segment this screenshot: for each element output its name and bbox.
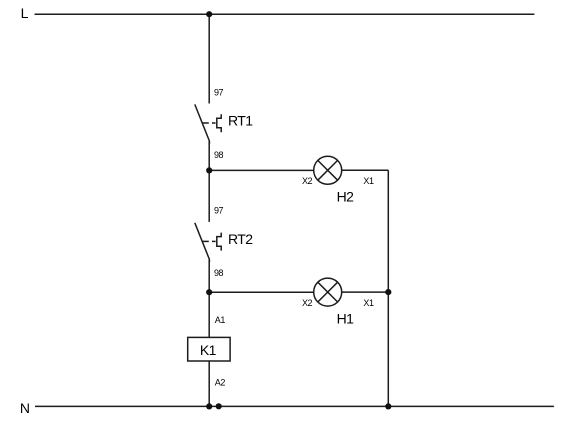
wire RT2 to K1 <box>208 259 210 337</box>
junction right vertical/N <box>385 403 391 409</box>
junction H1/right vertical <box>385 289 391 295</box>
svg-text:A2: A2 <box>215 377 226 387</box>
wire H2 branch left <box>209 169 314 171</box>
svg-text:X1: X1 <box>363 176 374 186</box>
junction N extra dot <box>216 403 222 409</box>
thermal contact RT2 blade <box>195 223 210 263</box>
svg-text:98: 98 <box>214 150 224 160</box>
svg-text:97: 97 <box>214 206 224 216</box>
wire main vertical from L to RT1 <box>208 14 210 103</box>
lamp H1 circle <box>314 278 342 306</box>
svg-text:A1: A1 <box>215 315 226 325</box>
junction K1/N <box>206 403 212 409</box>
lamp H2 cross <box>318 160 338 180</box>
lamp H1 cross <box>318 282 338 302</box>
wire L line <box>35 13 535 15</box>
junction L/vertical <box>206 11 212 17</box>
svg-text:X1: X1 <box>363 298 374 308</box>
wire H1 branch right <box>342 291 389 293</box>
junction H1 branch <box>206 289 212 295</box>
svg-text:K1: K1 <box>200 342 217 358</box>
svg-text:RT1: RT1 <box>228 113 253 129</box>
junction H2 branch <box>206 167 212 173</box>
thermal contact RT2 hook <box>217 233 221 251</box>
wire H1 branch left <box>209 291 314 293</box>
wire K1 to N <box>208 361 210 406</box>
svg-text:X2: X2 <box>302 298 313 308</box>
lamp H2 circle <box>314 156 342 184</box>
svg-text:N: N <box>20 400 30 416</box>
coil K1 box <box>188 337 230 361</box>
svg-text:97: 97 <box>214 87 224 97</box>
svg-text:X2: X2 <box>302 176 313 186</box>
svg-text:RT2: RT2 <box>228 231 253 247</box>
wire right vertical <box>387 170 389 406</box>
wire RT1 to RT2 <box>208 141 210 222</box>
svg-text:H1: H1 <box>337 311 355 327</box>
thermal contact RT2 dashes <box>202 240 209 242</box>
wire H2 branch right <box>342 169 389 171</box>
svg-text:H2: H2 <box>337 189 355 205</box>
svg-text:98: 98 <box>214 268 224 278</box>
thermal contact RT1 blade <box>195 104 210 144</box>
wire N line <box>35 405 554 407</box>
thermal contact RT1 dashes <box>202 122 209 124</box>
thermal contact RT1 hook <box>217 114 221 132</box>
svg-text:L: L <box>21 5 29 21</box>
